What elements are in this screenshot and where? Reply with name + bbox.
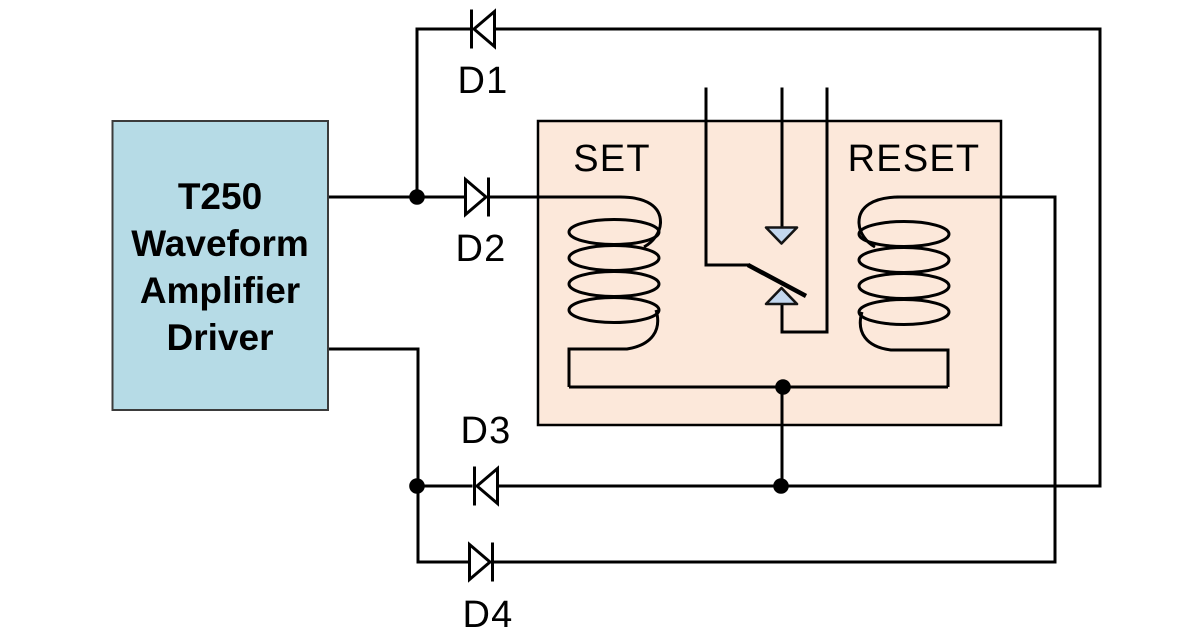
node: junction dot on D3 line: [775, 480, 788, 493]
node: centre-tap junction dot on bottom rail: [777, 381, 790, 394]
svg-text:D4: D4: [463, 594, 514, 636]
wire: T250 lower output down to D3/D4: [328, 349, 468, 562]
svg-text:Waveform: Waveform: [131, 223, 309, 264]
wire: relay centre tap down to D3 line: [781, 387, 784, 486]
relay box: [538, 121, 1001, 425]
diode D4 (pointing right): [470, 543, 493, 582]
node: junction dot at D2 input: [411, 191, 424, 204]
wire: D4 line to inner right vertical up to RESET feed: [494, 197, 1056, 562]
diode D3 (pointing left): [475, 467, 498, 506]
contact arrow (NC, pointing up): [766, 288, 797, 304]
svg-text:Driver: Driver: [167, 317, 274, 358]
wire: D3 line across to outer right vertical: [418, 485, 1100, 488]
T250 Waveform Amplifier Driver block: [113, 121, 329, 410]
coil SET (inductor): feed, turns, tail to bottom rail: [538, 197, 661, 247]
wire: relay bottom rail: [569, 386, 948, 389]
svg-text:D2: D2: [456, 228, 507, 270]
svg-text:RESET: RESET: [848, 138, 981, 180]
diode D2 (pointing right): [466, 178, 489, 217]
wire: top net from D1 corner to right vertical: [417, 29, 1100, 486]
contact arrow (NO, pointing down): [766, 228, 797, 244]
wire: NC contact stub (right): [782, 89, 827, 332]
svg-text:D1: D1: [458, 60, 509, 102]
svg-text:SET: SET: [573, 138, 651, 180]
svg-text:D3: D3: [461, 410, 512, 452]
svg-text:Amplifier: Amplifier: [140, 270, 300, 311]
wire: T250 output to D2 junction and into relay box: [328, 196, 620, 199]
switch arm (movable contact): [748, 265, 806, 296]
wire: switch common stub (left): [706, 89, 748, 265]
coil RESET (inductor): feed, turns, tail to bottom rail: [859, 197, 900, 247]
diode D1 (pointing left): [472, 10, 495, 49]
wire: NO contact stub (middle): [781, 89, 784, 227]
svg-text:T250: T250: [178, 176, 262, 217]
node: junction dot where T250 lower output meets D3 line: [411, 480, 424, 493]
